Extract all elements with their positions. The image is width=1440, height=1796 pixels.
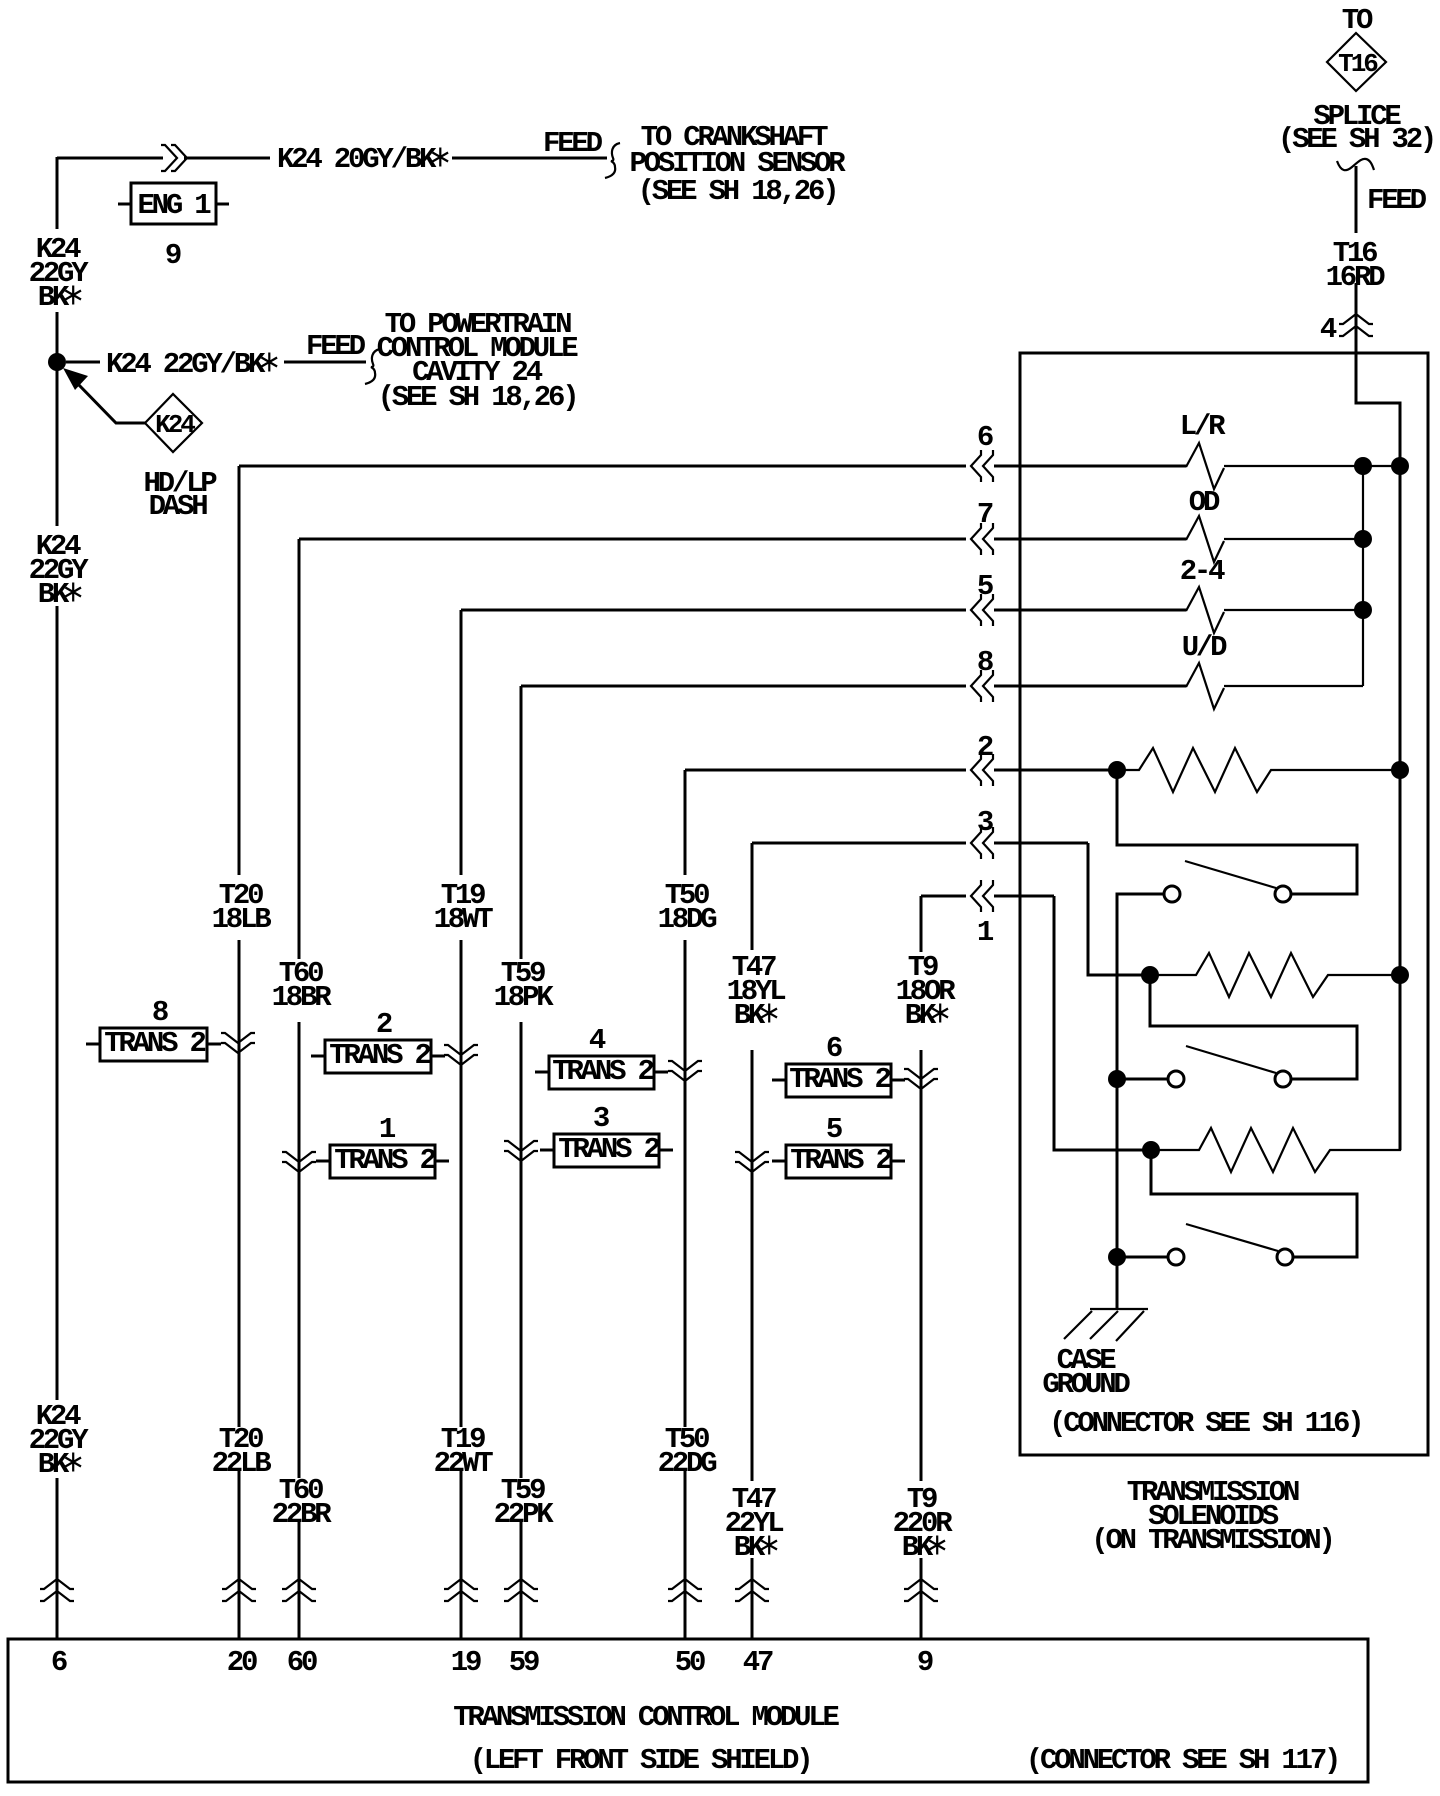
splice symbol diamond K24 xyxy=(145,394,202,452)
svg-text:8: 8 xyxy=(152,996,168,1029)
svg-text:6: 6 xyxy=(977,421,993,454)
inline connector chevron pin 5 xyxy=(971,594,993,626)
svg-text:18LB: 18LB xyxy=(212,903,272,936)
svg-text:DASH: DASH xyxy=(149,490,208,523)
solenoid OD xyxy=(1186,516,1224,562)
inline connector chevron down T20 at TRANS2-8 xyxy=(221,1033,255,1053)
svg-text:U/D: U/D xyxy=(1182,631,1227,664)
resistor 3 (pin 1 sensor) xyxy=(1151,975,1400,1172)
inline connector chevrons >> on K24 feed wire xyxy=(161,145,187,171)
splice pointer arrow to K24 diamond xyxy=(76,382,145,423)
splice symbol diamond T16 xyxy=(1327,33,1386,91)
wire T59 column (pin 8 U/D solenoid) xyxy=(521,686,1186,1639)
svg-text:2: 2 xyxy=(376,1008,392,1041)
svg-text:5: 5 xyxy=(977,570,993,603)
svg-text:TRANSMISSION CONTROL MODULE: TRANSMISSION CONTROL MODULE xyxy=(453,1701,839,1734)
wire switch 2 left terminal xyxy=(1117,1078,1167,1081)
svg-text:60: 60 xyxy=(287,1646,317,1679)
svg-text:18BR: 18BR xyxy=(272,981,333,1014)
svg-text:K24 22GY/BK: K24 22GY/BK xyxy=(106,348,276,381)
svg-text:59: 59 xyxy=(509,1646,539,1679)
wire T60 column (pin 7 OD solenoid) xyxy=(299,539,1186,1639)
inline connector chevron pin 6 xyxy=(971,450,993,482)
svg-text:18PK: 18PK xyxy=(494,981,555,1014)
svg-text:(SEE SH 18,26): (SEE SH 18,26) xyxy=(378,381,577,414)
node resistor 2 right rail B xyxy=(1391,966,1409,984)
resistor speed sensor (pin 2) xyxy=(1117,748,1400,792)
inline connector chevron pin 8 xyxy=(971,670,993,702)
svg-text:3: 3 xyxy=(593,1102,609,1135)
wire rail B from feed xyxy=(1399,466,1402,1150)
inline connector chevron down T60 at TRANS2-1 xyxy=(282,1152,316,1172)
brace to crankshaft destination xyxy=(605,143,620,178)
svg-text:(CONNECTOR SEE SH 116): (CONNECTOR SEE SH 116) xyxy=(1049,1407,1361,1440)
connector callout TRANS 2 cavity 5 xyxy=(772,1145,905,1178)
svg-text:7: 7 xyxy=(977,498,993,531)
node resistor 2 left xyxy=(1141,966,1159,984)
svg-text:22LB: 22LB xyxy=(212,1447,272,1480)
wire T47 column (pin 3) xyxy=(752,843,1088,1639)
svg-text:6: 6 xyxy=(51,1646,67,1679)
svg-text:TRANS 2: TRANS 2 xyxy=(552,1055,653,1088)
svg-text:ENG 1: ENG 1 xyxy=(137,189,211,222)
node 2-4 rail A xyxy=(1354,601,1372,619)
brace to PCM destination xyxy=(365,349,380,384)
svg-text:9: 9 xyxy=(917,1646,933,1679)
node resistor 3 left xyxy=(1142,1141,1160,1159)
inline connector chevron up T60 at TCM xyxy=(282,1579,316,1601)
svg-text:(SEE SH 18,26): (SEE SH 18,26) xyxy=(638,175,837,208)
svg-text:(LEFT FRONT SIDE SHIELD): (LEFT FRONT SIDE SHIELD) xyxy=(470,1744,811,1777)
inline connector chevron down T9 at TRANS2-6 xyxy=(904,1069,938,1089)
svg-text:(ON TRANSMISSION): (ON TRANSMISSION) xyxy=(1091,1524,1332,1557)
svg-text:TRANS 2: TRANS 2 xyxy=(334,1144,435,1177)
svg-text:22WT: 22WT xyxy=(434,1447,494,1480)
wire pin 3 feed down to resistor 2 xyxy=(1088,843,1142,975)
svg-text:2: 2 xyxy=(977,731,993,764)
svg-text:50: 50 xyxy=(675,1646,705,1679)
fuse box callout ENG 1 xyxy=(131,183,216,224)
node pin2 junction xyxy=(1108,761,1126,779)
svg-text:TRANS 2: TRANS 2 xyxy=(558,1133,659,1166)
wire T16 feed vertical xyxy=(1356,166,1400,466)
wire K24 top horizontal run to crankshaft sensor xyxy=(57,157,607,160)
inline connector chevron up T50 at TCM xyxy=(668,1579,702,1601)
splice node on K24 xyxy=(48,353,66,371)
svg-text:22PK: 22PK xyxy=(494,1498,555,1531)
solenoid L/R xyxy=(1186,443,1224,489)
inline connector chevron up T47 at TCM xyxy=(735,1579,769,1601)
svg-text:TRANS 2: TRANS 2 xyxy=(104,1027,205,1060)
connector callout TRANS 2 cavity 2 xyxy=(311,1040,445,1073)
inline connector chevron up T59 at TCM xyxy=(504,1579,538,1601)
wire L/R output to rails xyxy=(1224,465,1400,467)
svg-text:18WT: 18WT xyxy=(434,903,494,936)
switch contact 2 xyxy=(1168,1071,1184,1087)
svg-text:L/R: L/R xyxy=(1180,410,1226,443)
inline connector chevron up pin 4 xyxy=(1339,314,1373,336)
inline connector chevron pin 7 xyxy=(971,523,993,555)
transmission solenoids connector box outline xyxy=(1020,353,1428,1455)
transmission control module box xyxy=(8,1639,1368,1782)
svg-text:K24: K24 xyxy=(155,410,195,440)
svg-text:T16: T16 xyxy=(1338,49,1378,79)
svg-text:GROUND: GROUND xyxy=(1042,1368,1130,1401)
svg-text:FEED: FEED xyxy=(1367,184,1427,217)
svg-text:18DG: 18DG xyxy=(658,903,717,936)
inline connector chevron down T19 at TRANS2-2 xyxy=(444,1045,478,1065)
wire 2-4 output xyxy=(1224,609,1363,611)
svg-text:FEED: FEED xyxy=(543,127,603,160)
svg-text:5: 5 xyxy=(826,1113,842,1146)
inline connector chevron up T9 at TCM xyxy=(904,1579,938,1601)
svg-text:K24 20GY/BK: K24 20GY/BK xyxy=(277,143,447,176)
svg-text:16RD: 16RD xyxy=(1326,261,1386,294)
svg-text:3: 3 xyxy=(977,806,993,839)
node switch 2 left on ground rail xyxy=(1108,1070,1126,1088)
connector callout TRANS 2 cavity 6 xyxy=(772,1064,905,1097)
solenoid 2-4 xyxy=(1186,587,1224,633)
svg-text:19: 19 xyxy=(451,1646,481,1679)
svg-text:4: 4 xyxy=(1320,313,1337,346)
inline connector chevron pin 1 xyxy=(971,880,993,912)
inline connector chevron up on K24 at TCM xyxy=(40,1579,74,1601)
inline connector chevron down T50 at TRANS2-4 xyxy=(668,1061,702,1081)
connector callout TRANS 2 cavity 1 xyxy=(316,1145,449,1178)
svg-text:2-4: 2-4 xyxy=(1180,555,1225,588)
case ground symbol xyxy=(1064,1309,1148,1341)
inline connector chevron down T47 at TRANS2-5 xyxy=(735,1152,769,1172)
svg-text:(CONNECTOR SEE SH 117): (CONNECTOR SEE SH 117) xyxy=(1026,1744,1338,1777)
inline connector chevron pin 2 xyxy=(971,754,993,786)
svg-text:1: 1 xyxy=(379,1113,396,1146)
resistor 2 (pin 3 sensor) xyxy=(1150,953,1400,997)
svg-text:22DG: 22DG xyxy=(658,1447,717,1480)
svg-text:8: 8 xyxy=(977,646,993,679)
wire pin2 branch to switch 1 xyxy=(1117,770,1357,894)
node L/R rail A xyxy=(1354,457,1372,475)
svg-text:(SEE SH 32): (SEE SH 32) xyxy=(1278,123,1434,156)
inline connector chevron up T20 at TCM xyxy=(222,1579,256,1601)
wire pin 1 feed down to resistor 3 xyxy=(1054,896,1143,1150)
wire rail A common of solenoids xyxy=(1362,466,1364,686)
svg-text:22BR: 22BR xyxy=(272,1498,333,1531)
svg-text:1: 1 xyxy=(977,916,994,949)
wire T20 column (pin 6 L/R solenoid) xyxy=(239,466,1186,1639)
brace from splice T16 xyxy=(1337,159,1374,170)
wire resistor 2 branch to switch 2 xyxy=(1150,975,1357,1079)
switch contact 1 xyxy=(1164,886,1180,902)
wire switch 1 left terminal to ground rail xyxy=(1117,894,1163,1309)
svg-text:20: 20 xyxy=(227,1646,257,1679)
node switch 3 left on ground rail xyxy=(1108,1248,1126,1266)
wire T9 column (pin 1) xyxy=(921,896,1054,1639)
switch contact 3 xyxy=(1168,1249,1184,1265)
connector callout TRANS 2 cavity 4 xyxy=(535,1056,668,1089)
svg-text:OD: OD xyxy=(1189,486,1220,519)
svg-text:TRANS 2: TRANS 2 xyxy=(329,1039,430,1072)
connector callout TRANS 2 cavity 8 xyxy=(86,1028,221,1061)
wire switch 3 left terminal xyxy=(1117,1256,1167,1259)
wire K24 left vertical (upper) xyxy=(56,157,59,1639)
node L/R rail B xyxy=(1391,457,1409,475)
wire OD output xyxy=(1224,538,1363,540)
inline connector chevron pin 3 xyxy=(971,827,993,859)
solenoid U/D xyxy=(1186,663,1224,709)
inline connector chevron up T19 at TCM xyxy=(444,1579,478,1601)
node OD rail A xyxy=(1354,530,1372,548)
svg-text:47: 47 xyxy=(743,1646,773,1679)
wire T19 column (pin 5 2-4 solenoid) xyxy=(461,610,1186,1639)
svg-text:FEED: FEED xyxy=(306,330,366,363)
svg-text:TO: TO xyxy=(1342,4,1373,37)
wire resistor 3 branch to switch 3 xyxy=(1151,1150,1357,1257)
svg-text:6: 6 xyxy=(826,1032,842,1065)
wire K24 branch to powertrain control module xyxy=(66,361,366,364)
wire T50 column (pin 2 sensor) xyxy=(685,770,1110,1639)
svg-text:9: 9 xyxy=(165,239,181,272)
connector callout TRANS 2 cavity 3 xyxy=(540,1134,673,1167)
svg-text:TRANS 2: TRANS 2 xyxy=(789,1063,890,1096)
svg-text:TRANS 2: TRANS 2 xyxy=(790,1144,891,1177)
wire U/D output xyxy=(1224,685,1363,687)
node resistor pin2 right rail B xyxy=(1391,761,1409,779)
inline connector chevron down T59 at TRANS2-3 xyxy=(504,1141,538,1161)
svg-text:4: 4 xyxy=(589,1024,606,1057)
